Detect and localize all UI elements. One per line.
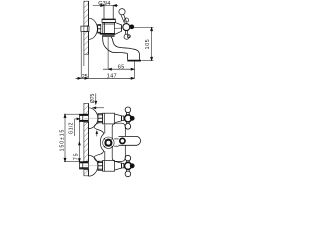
spout bell and tube (side view) bbox=[103, 37, 135, 54]
shower pipe target circle (plan view) bbox=[103, 137, 114, 148]
svg-text:147: 147 bbox=[107, 74, 117, 80]
dimension 65 bbox=[103, 37, 134, 78]
bonnet cone bottom (plan view) bbox=[115, 161, 124, 170]
svg-text:Ø75: Ø75 bbox=[90, 93, 96, 103]
bonnet cone top (plan view) bbox=[115, 114, 124, 123]
union nut top (plan view) bbox=[98, 114, 103, 123]
dimension 150±15 (plan view) bbox=[64, 114, 80, 161]
small up arrow near column bbox=[96, 131, 98, 136]
svg-text:75: 75 bbox=[74, 153, 80, 161]
union nut bottom (plan view) bbox=[98, 161, 103, 170]
diverter knob (plan view) bbox=[120, 138, 125, 143]
spout neck (plan view) bbox=[114, 139, 118, 146]
inlet pipe behind wall (side view) bbox=[81, 26, 89, 31]
centerline top inlet bbox=[85, 117, 99, 119]
svg-text:105: 105 bbox=[145, 39, 151, 50]
svg-text:150±15: 150±15 bbox=[59, 129, 65, 152]
dimension Ø75 (plan view top) bbox=[93, 94, 104, 109]
svg-text:G3/4: G3/4 bbox=[98, 1, 110, 7]
inlet pipe bottom (plan view) bbox=[80, 162, 89, 169]
dimension 147 and 25 (bottom) bbox=[76, 32, 135, 79]
body column outline (plan view) bbox=[94, 122, 105, 162]
cross handle (side view) bbox=[119, 9, 134, 40]
dimension 75 (plan view) bbox=[78, 121, 80, 162]
svg-text:65: 65 bbox=[118, 64, 125, 70]
spout tube (plan view) bbox=[119, 136, 141, 145]
union nut (side view) bbox=[98, 24, 101, 33]
dimension G3/4 (top) bbox=[93, 4, 119, 6]
svg-text:25: 25 bbox=[82, 74, 88, 80]
wall section (plan view) bbox=[84, 103, 89, 175]
escutcheon bottom (plan view) bbox=[89, 155, 98, 176]
spout bell (plan view) bbox=[112, 123, 125, 161]
svg-text:G1/2: G1/2 bbox=[68, 122, 74, 134]
dimension 105 (right side) bbox=[134, 27, 154, 60]
escutcheon (side view) bbox=[89, 18, 98, 39]
valve body bottom (plan view) bbox=[103, 161, 115, 172]
cross handle bottom (plan view) bbox=[125, 155, 135, 176]
leader G1/2 (plan view) bbox=[75, 118, 80, 136]
cross handle top (plan view) bbox=[125, 107, 135, 129]
valve bonnet cone (side view) bbox=[115, 22, 122, 34]
spout outlet (side view) bbox=[127, 49, 141, 60]
valve body (side view) bbox=[103, 22, 115, 34]
escutcheon top (plan view) bbox=[89, 108, 98, 129]
wall section (side view) bbox=[84, 1, 89, 78]
valve body top (plan view) bbox=[103, 113, 115, 124]
body base rings (side view) bbox=[100, 34, 115, 36]
inlet pipe top (plan view) bbox=[80, 114, 89, 121]
shower outlet pipe G3/4 (side view) bbox=[102, 6, 115, 23]
centerline bottom inlet bbox=[85, 165, 99, 167]
